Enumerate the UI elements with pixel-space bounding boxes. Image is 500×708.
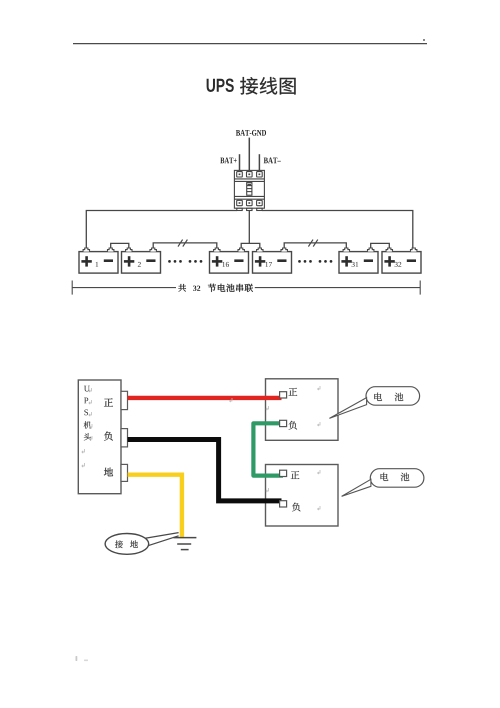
battery1 negative terminal	[280, 420, 297, 429]
wire left bus (BAT+ side)	[86, 211, 237, 249]
title: UPS wiring diagram	[207, 77, 296, 95]
callout: battery label (lower)	[342, 469, 424, 497]
label BAT-GND	[236, 130, 266, 136]
ellipsis dots (between battery 17 and 31)	[298, 260, 332, 263]
battery 2	[122, 248, 161, 273]
wire battery2- to battery16+ (with break marks)	[153, 240, 217, 249]
battery 32	[382, 248, 421, 273]
wire jumper battery1- to battery2+	[111, 243, 129, 248]
wire right bus (BAT- side)	[262, 211, 413, 249]
battery2 negative terminal	[280, 501, 301, 512]
wire BAT+ pin	[239, 154, 241, 170]
battery1 positive terminal	[280, 388, 298, 398]
ellipsis dots (between battery 2 and 16)	[168, 260, 202, 263]
label BAT-	[264, 158, 281, 164]
wire green: battery1 negative to battery2 positive	[253, 423, 283, 475]
top horizontal rule	[73, 39, 427, 44]
UPS earth terminal (di)	[104, 464, 128, 481]
wire BAT-GND pin	[248, 138, 250, 171]
callout: grounding (jie di) ellipse	[105, 533, 179, 555]
ground symbol	[173, 538, 196, 550]
paragraph marks (faint)	[82, 388, 92, 467]
callout: battery label (upper)	[329, 387, 419, 419]
wire battery17- to battery31+ (with break marks)	[284, 240, 346, 249]
battery 17	[253, 248, 292, 273]
label BAT+	[220, 158, 236, 164]
battery 31	[339, 248, 378, 273]
battery pack box 2	[266, 465, 339, 527]
label: total 32 batteries in series	[178, 284, 253, 292]
battery 1	[79, 248, 118, 273]
UPS negative terminal (fu)	[104, 429, 127, 447]
wire breaker middle pin down to battery16/17 junction	[248, 211, 250, 244]
faint footer mark	[76, 656, 89, 661]
wire yellow: UPS earth to ground	[128, 475, 182, 537]
circuit breaker CB1 (3-pole battery breaker)	[234, 170, 264, 210]
battery 16	[210, 248, 249, 273]
UPS head unit box	[78, 380, 121, 494]
wire jumper battery31- to battery32+	[371, 243, 390, 248]
wire red: UPS positive to battery1 positive	[128, 396, 282, 400]
wire black: UPS negative to battery2 negative	[128, 440, 282, 501]
faint paragraph marks in battery boxes	[230, 386, 320, 510]
UPS positive terminal (zheng)	[104, 391, 127, 409]
battery pack box 1	[266, 379, 339, 441]
battery2 positive terminal	[280, 470, 300, 479]
wire BAT- pin	[258, 154, 260, 170]
dimension line: 32 batteries in series	[72, 281, 420, 295]
wire junction bridge battery16- to battery17+ (BAT-GND tap)	[241, 243, 260, 248]
